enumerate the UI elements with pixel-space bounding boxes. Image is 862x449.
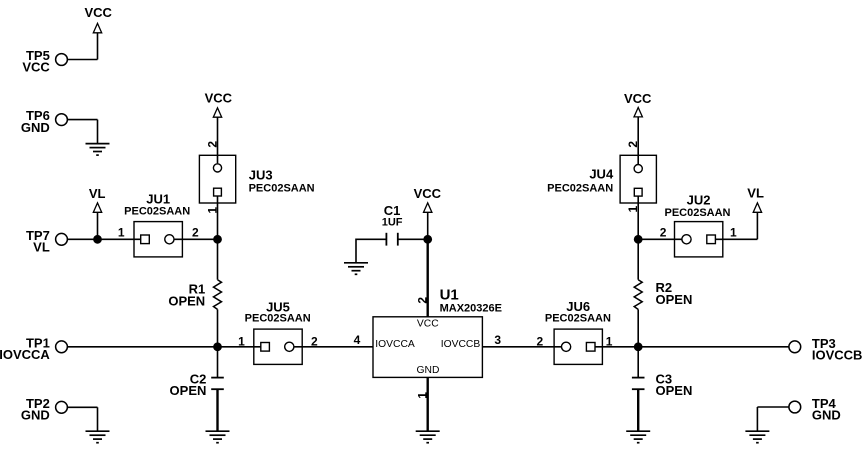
pin 1 label U1 [415, 392, 429, 399]
svg-text:IOVCCB: IOVCCB [812, 348, 862, 363]
wire net IOVCCA rail (TP1 to JU5) [67, 346, 260, 348]
ground at TP4 [745, 431, 769, 443]
svg-text:OPEN: OPEN [656, 383, 693, 398]
wire JU3 pin 1 to node B [217, 203, 219, 239]
pin 2 label JU4 [626, 141, 640, 148]
svg-text:2: 2 [205, 141, 219, 148]
wire R1 to node IOVCCA [217, 309, 219, 346]
wire TP5 to VCC [67, 59, 97, 61]
ground at TP6 [86, 144, 110, 156]
wire TP7 to JU1 pin 1 [67, 238, 141, 240]
junction node IOVCCA [213, 342, 222, 351]
test point TP4 [789, 396, 841, 423]
test point TP6 [21, 108, 67, 135]
ground at C2 [206, 431, 230, 443]
jumper JU1 [134, 191, 182, 257]
svg-text:JU4: JU4 [589, 167, 614, 182]
pin name IOVCCB of U1 [441, 339, 481, 350]
pin 1 label JU5 [238, 334, 245, 348]
wire node D to JU2 pin 2 [638, 238, 682, 240]
wire node IOVCCB to C3 [637, 347, 639, 378]
svg-text:2: 2 [660, 226, 667, 240]
svg-text:JU2: JU2 [687, 192, 711, 207]
pin 1 label JU2 [730, 226, 737, 240]
svg-text:GND: GND [417, 365, 440, 376]
wire node D to R2 [637, 239, 639, 279]
jumper JU6 [554, 299, 602, 364]
test point TP1 [0, 335, 67, 362]
value label JU3 PEC02SAAN [249, 182, 315, 194]
wire JU1 pin 2 to node B [174, 238, 218, 240]
svg-text:PEC02SAAN: PEC02SAAN [245, 313, 311, 325]
svg-text:2: 2 [415, 297, 429, 304]
jumper JU2 [675, 192, 723, 257]
svg-text:3: 3 [494, 333, 501, 347]
wire C2 to ground [216, 389, 218, 431]
svg-text:PEC02SAAN: PEC02SAAN [249, 182, 315, 194]
wire C3 to ground [637, 389, 639, 431]
junction node D (JU4/JU2/R2) [634, 235, 643, 244]
svg-text:MAX20326E: MAX20326E [440, 302, 502, 314]
svg-text:1: 1 [238, 334, 245, 348]
svg-text:OPEN: OPEN [168, 293, 205, 308]
wire R2 to node IOVCCB [637, 309, 639, 346]
svg-text:VCC: VCC [414, 186, 442, 201]
junction node IOVCCB [634, 342, 643, 351]
value label C2 OPEN [170, 383, 207, 398]
svg-text:JU3: JU3 [249, 167, 273, 182]
jumper JU3 [199, 155, 272, 203]
svg-text:VCC: VCC [624, 91, 652, 106]
ground at C1 [344, 263, 368, 275]
wire net IOVCCB rail (node to TP3) [638, 346, 789, 348]
wire TP4 to ground [757, 407, 789, 431]
svg-text:VL: VL [33, 240, 50, 255]
pin 2 label JU6 [537, 334, 544, 348]
value label JU4 PEC02SAAN [547, 182, 613, 194]
ground at TP2 [86, 431, 110, 443]
capacitor C1 [384, 203, 401, 246]
value label U1 MAX20326E [440, 302, 502, 314]
ground at U1 [416, 431, 440, 443]
jumper JU5 [254, 299, 302, 364]
svg-text:OPEN: OPEN [656, 292, 693, 307]
capacitor C2 [190, 371, 224, 389]
svg-text:GND: GND [21, 120, 50, 135]
pin name GND of U1 [417, 365, 440, 376]
net VCC power symbol at JU3 [205, 90, 233, 155]
test point TP3 [789, 336, 862, 363]
svg-text:IOVCCA: IOVCCA [375, 339, 415, 350]
value label R2 OPEN [656, 292, 693, 307]
pin 2 label JU2 [660, 226, 667, 240]
resistor R2 [634, 280, 672, 310]
wire node B to R1 [217, 239, 219, 279]
pin 1 label JU3 [205, 207, 219, 214]
wire U1 pin 3 to JU6 pin 2 [482, 346, 561, 348]
svg-text:1UF: 1UF [382, 216, 403, 228]
net VCC power symbol at JU4 [624, 91, 652, 155]
svg-text:VCC: VCC [417, 319, 439, 330]
wire node VCC to U1 VCC pin [427, 239, 429, 316]
pin 1 label JU4 [626, 206, 640, 213]
svg-text:VL: VL [747, 186, 764, 201]
net VL power symbol at JU2 [747, 186, 764, 240]
svg-text:2: 2 [192, 226, 199, 240]
svg-text:U1: U1 [440, 286, 459, 303]
pin 3 label U1 [494, 333, 501, 347]
svg-text:IOVCCB: IOVCCB [441, 339, 481, 350]
capacitor C3 [632, 372, 672, 390]
pin 1 label JU6 [606, 334, 613, 348]
value label JU1 PEC02SAAN [124, 206, 190, 218]
pin name VCC of U1 [417, 319, 439, 330]
value label R1 OPEN [168, 293, 205, 308]
svg-text:VCC: VCC [22, 60, 50, 75]
svg-text:GND: GND [812, 408, 841, 423]
svg-text:PEC02SAAN: PEC02SAAN [545, 313, 611, 325]
wire node IOVCCA to C2 [217, 347, 219, 378]
svg-text:PEC02SAAN: PEC02SAAN [124, 206, 190, 218]
pin 4 label U1 [354, 333, 361, 347]
pin 2 label JU3 [205, 141, 219, 148]
svg-text:2: 2 [537, 334, 544, 348]
resistor R1 [189, 280, 222, 310]
net VCC power symbol at TP5 [84, 5, 112, 59]
pin name IOVCCA of U1 [375, 339, 415, 350]
svg-text:VL: VL [89, 186, 106, 201]
wire TP2 to ground [67, 407, 98, 431]
svg-text:4: 4 [354, 333, 361, 347]
wire TP6 to ground [67, 120, 98, 144]
test point TP5 [22, 48, 67, 75]
test point TP2 [21, 396, 67, 423]
wire JU6 pin 1 to node IOVCCB [595, 346, 638, 348]
svg-text:1: 1 [118, 226, 125, 240]
pin 2 label JU1 [192, 226, 199, 240]
net VCC power symbol at U1 [414, 186, 442, 239]
junction node VCC [423, 235, 432, 244]
jumper JU4 [589, 155, 656, 203]
wire JU2 pin 1 to VL [715, 238, 757, 240]
value label JU2 PEC02SAAN [664, 207, 730, 219]
svg-text:VCC: VCC [84, 5, 112, 20]
wire U1 GND pin to ground [427, 377, 429, 431]
test point TP7 [26, 228, 67, 255]
wire C1 to ground [356, 239, 386, 262]
pin 2 label JU5 [311, 334, 318, 348]
wire JU5 pin 2 to U1 pin 4 [294, 346, 373, 348]
value label C1 1UF [382, 216, 403, 228]
svg-text:IOVCCA: IOVCCA [0, 347, 50, 362]
junction node VL [93, 235, 102, 244]
value label JU6 PEC02SAAN [545, 313, 611, 325]
net VL power symbol at TP7 [89, 186, 106, 239]
wire C1 to node VCC [398, 238, 428, 240]
value label JU5 PEC02SAAN [245, 313, 311, 325]
pin 2 label U1 [415, 297, 429, 304]
svg-text:PEC02SAAN: PEC02SAAN [664, 207, 730, 219]
pin 1 label JU1 [118, 226, 125, 240]
value label C3 OPEN [656, 383, 693, 398]
svg-text:JU1: JU1 [146, 191, 170, 206]
svg-text:2: 2 [626, 141, 640, 148]
svg-text:VCC: VCC [205, 90, 233, 105]
ic U1 MAX20326E [373, 286, 482, 377]
svg-text:PEC02SAAN: PEC02SAAN [547, 182, 613, 194]
wire JU4 pin 1 to node D [637, 203, 639, 239]
junction node B (VL/JU3/R1) [213, 235, 222, 244]
svg-text:OPEN: OPEN [170, 383, 207, 398]
ground at C3 [626, 431, 650, 443]
svg-text:1: 1 [730, 226, 737, 240]
svg-text:GND: GND [21, 408, 50, 423]
